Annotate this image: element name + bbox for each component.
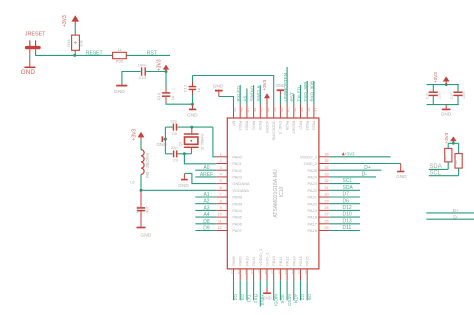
svg-text:47: 47: [246, 108, 250, 112]
svg-text:VDDIO_2: VDDIO_2: [300, 154, 318, 159]
svg-text:D3: D3: [240, 294, 245, 300]
svg-text:TX1: TX1: [247, 294, 252, 303]
svg-text:36: 36: [324, 152, 328, 156]
svg-text:EP: EP: [231, 121, 236, 127]
svg-text:GND: GND: [140, 233, 151, 239]
svg-text:44: 44: [266, 108, 270, 112]
svg-text:D12: D12: [343, 205, 352, 211]
svg-text:A2: A2: [203, 199, 209, 205]
svg-text:IC10: IC10: [279, 187, 285, 198]
svg-text:AREF: AREF: [200, 172, 213, 178]
svg-text:SDA: SDA: [429, 164, 441, 170]
svg-text:PA21: PA21: [308, 195, 318, 200]
svg-text:14: 14: [237, 270, 241, 274]
svg-text:RESET: RESET: [292, 121, 297, 135]
svg-text:GND: GND: [21, 69, 36, 76]
svg-text:9: 9: [220, 206, 222, 210]
svg-text:JRESET: JRESET: [25, 32, 46, 38]
svg-text:Q1: Q1: [178, 142, 182, 146]
svg-text:1u: 1u: [196, 88, 201, 92]
svg-text:45: 45: [260, 108, 264, 112]
svg-text:1u: 1u: [170, 96, 175, 100]
svg-text:VDDANA: VDDANA: [232, 188, 249, 193]
svg-text:RESET: RESET: [86, 51, 103, 57]
svg-text:VDDIN: VDDIN: [265, 121, 270, 134]
svg-text:PA14: PA14: [298, 256, 303, 266]
svg-text:SWCLK: SWCLK: [256, 84, 261, 101]
svg-text:4: 4: [220, 173, 222, 177]
svg-text:GND_3: GND_3: [278, 121, 283, 135]
svg-text:GNDANA: GNDANA: [232, 181, 249, 186]
svg-text:34: 34: [324, 166, 328, 170]
svg-text:PA05: PA05: [232, 215, 242, 220]
svg-text:D-: D-: [362, 172, 368, 178]
svg-text:PA01: PA01: [232, 161, 242, 166]
svg-text:+3V3: +3V3: [62, 15, 68, 27]
svg-text:30: 30: [324, 193, 328, 197]
svg-text:PA28: PA28: [285, 121, 290, 131]
svg-text:1: 1: [220, 152, 222, 156]
svg-text:PA24: PA24: [308, 175, 318, 180]
svg-text:C13: C13: [156, 92, 161, 100]
svg-text:PA20: PA20: [308, 201, 318, 206]
svg-text:PA18: PA18: [308, 215, 318, 220]
svg-text:GND: GND: [276, 83, 285, 88]
svg-text:29: 29: [324, 199, 328, 203]
svg-text:PA17: PA17: [308, 221, 318, 226]
svg-text:5: 5: [220, 179, 222, 183]
svg-text:GND_2: GND_2: [304, 161, 318, 166]
svg-text:D4: D4: [233, 294, 238, 300]
svg-text:PA22: PA22: [308, 188, 318, 193]
svg-text:A1: A1: [203, 192, 209, 198]
svg-text:GND: GND: [156, 142, 167, 147]
svg-text:C14: C14: [139, 75, 147, 80]
svg-text:PB11: PB11: [278, 256, 283, 266]
svg-text:PA27: PA27: [298, 121, 303, 131]
svg-text:33: 33: [324, 173, 328, 177]
svg-text:D6: D6: [343, 198, 350, 204]
svg-text:R35: R35: [116, 58, 124, 63]
svg-text:RST: RST: [147, 51, 157, 57]
svg-text:PA16: PA16: [308, 228, 318, 233]
svg-text:17: 17: [257, 270, 261, 274]
svg-text:37: 37: [313, 108, 317, 112]
svg-text:C8: C8: [172, 131, 178, 136]
svg-text:27: 27: [324, 213, 328, 217]
svg-text:40: 40: [293, 108, 297, 112]
svg-text:TXD_30B: TXD_30B: [303, 82, 308, 102]
svg-text:100n: 100n: [138, 63, 147, 68]
svg-text:A3: A3: [203, 205, 209, 211]
svg-text:ATN: ATN: [294, 294, 299, 303]
svg-text:26: 26: [324, 219, 328, 223]
svg-text:C15: C15: [135, 205, 140, 213]
svg-text:20: 20: [277, 270, 281, 274]
svg-text:18: 18: [264, 270, 268, 274]
svg-text:SDA: SDA: [343, 185, 354, 191]
svg-text:PA04: PA04: [232, 208, 242, 213]
svg-text:SCL: SCL: [429, 170, 441, 176]
svg-text:PA19: PA19: [308, 208, 318, 213]
svg-text:PA15: PA15: [305, 256, 310, 266]
svg-text:C17: C17: [450, 93, 454, 99]
svg-text:A0: A0: [203, 165, 209, 171]
svg-text:42: 42: [280, 108, 284, 112]
svg-text:RST: RST: [290, 92, 295, 101]
svg-text:GND: GND: [213, 84, 224, 90]
svg-text:+3V3: +3V3: [345, 151, 356, 156]
svg-text:GND: GND: [396, 174, 407, 179]
svg-text:D+: D+: [453, 208, 459, 214]
svg-text:D-: D-: [453, 215, 458, 221]
svg-text:SCK: SCK: [280, 294, 285, 304]
svg-text:4u7: 4u7: [144, 205, 149, 212]
svg-text:100n: 100n: [462, 91, 466, 99]
svg-text:PA30: PA30: [258, 121, 263, 131]
svg-text:22p: 22p: [171, 145, 178, 150]
svg-text:32.768kHz: 32.768kHz: [201, 133, 205, 150]
svg-text:PA23: PA23: [308, 181, 318, 186]
svg-text:C16: C16: [425, 93, 429, 99]
svg-text:16: 16: [251, 270, 255, 274]
svg-text:24: 24: [304, 270, 308, 274]
svg-text:35: 35: [324, 159, 328, 163]
svg-text:D7: D7: [343, 192, 350, 198]
svg-text:31: 31: [324, 186, 328, 190]
svg-text:L5: L5: [130, 180, 135, 185]
svg-text:48: 48: [240, 108, 244, 112]
svg-text:D2: D2: [300, 294, 305, 300]
svg-text:PA06: PA06: [232, 221, 242, 226]
svg-text:TXLED: TXLED: [296, 86, 301, 101]
svg-text:GND: GND: [187, 112, 198, 117]
svg-text:PA00: PA00: [232, 154, 242, 159]
svg-text:10: 10: [218, 213, 222, 217]
svg-text:PB23: PB23: [305, 121, 310, 132]
svg-text:PA02: PA02: [232, 168, 242, 173]
svg-text:GND: GND: [114, 89, 125, 95]
svg-text:D10: D10: [343, 212, 352, 218]
svg-text:PB22: PB22: [312, 121, 317, 132]
svg-text:100n: 100n: [438, 91, 442, 99]
svg-text:15: 15: [244, 270, 248, 274]
svg-text:PA03: PA03: [232, 175, 242, 180]
svg-text:4k7: 4k7: [444, 154, 448, 160]
svg-text:43: 43: [273, 108, 277, 112]
svg-text:6: 6: [220, 186, 222, 190]
svg-text:PA13: PA13: [291, 256, 296, 266]
svg-text:PA31: PA31: [251, 121, 256, 131]
svg-text:VDDIO_1: VDDIO_1: [258, 248, 263, 266]
svg-text:VDDCORE: VDDCORE: [272, 121, 277, 141]
svg-text:MISO: MISO: [287, 294, 292, 306]
svg-text:+3V3: +3V3: [433, 72, 438, 83]
svg-text:+3V3: +3V3: [156, 59, 162, 71]
svg-text:22: 22: [291, 270, 295, 274]
svg-text:GND_1: GND_1: [265, 252, 270, 266]
svg-text:GND: GND: [178, 183, 189, 188]
svg-text:1k: 1k: [117, 47, 121, 52]
svg-text:A5: A5: [243, 95, 248, 101]
svg-text:C9: C9: [173, 157, 179, 162]
svg-text:D13: D13: [343, 218, 352, 224]
svg-text:+3V3: +3V3: [262, 79, 267, 90]
svg-text:PA12: PA12: [285, 256, 290, 266]
svg-text:RXLED: RXLED: [236, 85, 241, 101]
svg-text:PB08: PB08: [232, 195, 243, 200]
svg-text:PA10: PA10: [244, 256, 249, 266]
svg-text:PB02: PB02: [245, 121, 250, 132]
svg-text:12: 12: [218, 226, 222, 230]
svg-text:PA07: PA07: [232, 228, 242, 233]
svg-text:D5: D5: [307, 294, 312, 300]
svg-text:PA09: PA09: [238, 256, 243, 266]
svg-text:11: 11: [218, 219, 222, 223]
svg-text:D8: D8: [203, 219, 210, 225]
svg-text:4k7: 4k7: [454, 159, 458, 165]
svg-text:PA25: PA25: [308, 168, 318, 173]
svg-text:+3V3: +3V3: [260, 294, 265, 305]
svg-text:FB - 30Ohm: FB - 30Ohm: [145, 153, 150, 178]
svg-text:RX1: RX1: [253, 294, 258, 303]
svg-text:23: 23: [298, 270, 302, 274]
svg-text:D9: D9: [203, 226, 210, 232]
svg-text:PB10: PB10: [271, 255, 276, 266]
svg-text:PA11: PA11: [251, 256, 256, 266]
svg-text:32: 32: [324, 179, 328, 183]
svg-text:PB09: PB09: [232, 201, 243, 206]
svg-text:21: 21: [284, 270, 288, 274]
svg-text:2: 2: [220, 159, 222, 163]
svg-text:+3V3: +3V3: [132, 129, 138, 141]
svg-text:D11: D11: [343, 225, 352, 231]
svg-text:C12: C12: [183, 84, 188, 92]
svg-text:A4: A4: [203, 212, 209, 218]
svg-text:25: 25: [324, 226, 328, 230]
svg-text:39: 39: [300, 108, 304, 112]
svg-text:46: 46: [253, 108, 257, 112]
svg-text:3: 3: [220, 166, 222, 170]
svg-text:R34: R34: [66, 39, 71, 47]
svg-text:GND: GND: [441, 112, 452, 117]
svg-text:41: 41: [287, 108, 291, 112]
svg-text:SWDIO: SWDIO: [249, 86, 254, 102]
svg-text:38: 38: [307, 108, 311, 112]
svg-text:SCL: SCL: [343, 178, 353, 184]
svg-text:13: 13: [231, 270, 235, 274]
svg-text:22p: 22p: [170, 119, 177, 124]
svg-text:MOSI: MOSI: [273, 294, 278, 306]
svg-text:19: 19: [271, 270, 275, 274]
svg-text:PA08: PA08: [231, 256, 236, 266]
svg-text:7: 7: [220, 193, 222, 197]
svg-text:10k: 10k: [78, 40, 83, 46]
svg-text:28: 28: [324, 206, 328, 210]
svg-text:8: 8: [220, 199, 222, 203]
svg-text:+3V3: +3V3: [444, 132, 449, 143]
svg-text:RXD_30B: RXD_30B: [310, 81, 315, 101]
svg-text:PB03: PB03: [238, 121, 243, 132]
svg-text:D+: D+: [364, 165, 371, 171]
svg-text:49: 49: [233, 108, 237, 112]
